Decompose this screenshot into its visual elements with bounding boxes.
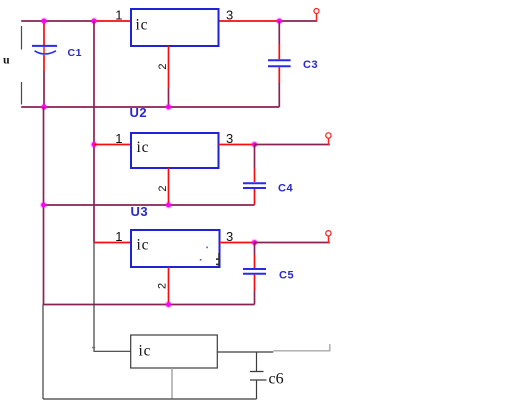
left column wire purple: [43, 107, 45, 305]
junction top C1: [40, 17, 47, 24]
wire pin3 U2 red: [219, 144, 255, 146]
wire to terminal 1 purple: [279, 20, 317, 22]
capacitor C4: [243, 145, 266, 206]
ground rail stage1 purple: [21, 106, 279, 108]
svg-text:U2: U2: [130, 105, 148, 120]
svg-text:1: 1: [115, 229, 122, 244]
svg-text:ic: ic: [136, 17, 149, 34]
wire pin1 U1 red: [94, 20, 131, 22]
wire pin1 U3 red: [94, 242, 131, 244]
junction C5 tap: [251, 239, 258, 246]
junction top column: [90, 17, 97, 24]
input port u: [3, 26, 22, 105]
junction C4 tap: [251, 141, 258, 148]
input column wire black lower: [92, 243, 131, 352]
terminal output 1: [314, 9, 319, 22]
wire pin2 U2 red: [168, 168, 170, 205]
svg-text:ic: ic: [139, 343, 152, 360]
svg-text:C1: C1: [68, 47, 83, 59]
wire pin1 U2 red: [94, 144, 131, 146]
svg-text:1: 1: [115, 131, 122, 146]
regulator U4 box: [131, 335, 218, 368]
svg-text:2: 2: [157, 283, 169, 289]
svg-text:U3: U3: [131, 204, 149, 219]
regulator U1 box: [131, 9, 219, 46]
capacitor C3: [268, 21, 291, 107]
ground rail stage3 purple: [44, 304, 255, 306]
ground rail stage2 purple: [44, 204, 255, 206]
capacitor c6: [250, 352, 267, 399]
regulator U2 box: [131, 133, 219, 168]
wire to terminal 3 purple: [255, 242, 330, 244]
terminal output 2: [326, 133, 331, 146]
junction C3 tap: [276, 17, 283, 24]
wire pin3 U3 red: [220, 242, 255, 244]
junction rail2 left: [40, 201, 47, 208]
capacitor C1: [32, 21, 57, 107]
svg-text:3: 3: [226, 229, 233, 244]
svg-text:1: 1: [115, 8, 122, 23]
wire top rail purple: [21, 20, 94, 22]
svg-text:u: u: [3, 53, 10, 67]
svg-text:C3: C3: [303, 59, 318, 71]
svg-text:3: 3: [226, 131, 233, 146]
wire pin3 U4 black: [217, 351, 273, 353]
wire gray output: [273, 344, 330, 351]
junction rail3 pin2: [165, 301, 172, 308]
wire pin2 U3 red: [168, 267, 170, 305]
svg-text:ic: ic: [137, 139, 150, 156]
wire to terminal 2 purple: [255, 144, 330, 146]
junction rail1 left: [40, 103, 47, 110]
terminal output 3: [326, 231, 331, 244]
wire pin2 U1 red: [168, 46, 170, 107]
main input column wire purple: [93, 21, 95, 243]
left column wire black lower: [42, 305, 44, 400]
junction stage2 tap: [90, 141, 97, 148]
svg-text:C4: C4: [278, 183, 293, 195]
capacitor C5: [243, 243, 266, 305]
ground rail bottom black: [43, 398, 257, 400]
regulator U3 box: [131, 230, 220, 267]
junction rail2 pin2: [165, 201, 172, 208]
svg-text:C5: C5: [279, 270, 294, 282]
svg-text:c6: c6: [269, 371, 284, 388]
svg-text:2: 2: [157, 63, 169, 69]
wire pin2 U4 gray: [171, 368, 173, 399]
svg-text:ic: ic: [137, 237, 150, 254]
svg-text:2: 2: [157, 185, 169, 191]
wire pin3 U1 red: [219, 20, 280, 22]
junction rail1 pin2: [165, 103, 172, 110]
svg-text:3: 3: [226, 8, 233, 23]
